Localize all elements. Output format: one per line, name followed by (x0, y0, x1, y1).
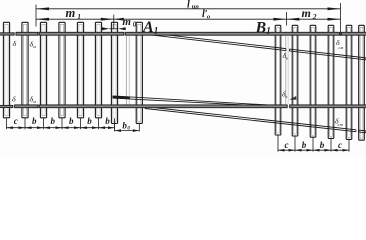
svg-text:c: c (338, 140, 342, 150)
svg-text:b: b (51, 116, 56, 126)
svg-text:см: см (338, 45, 343, 50)
svg-text:ст: ст (338, 122, 344, 127)
svg-text:A: A (142, 19, 154, 36)
svg-text:2: 2 (312, 12, 317, 21)
svg-text:δ: δ (13, 39, 17, 48)
svg-text:b: b (32, 116, 37, 126)
svg-text:1: 1 (266, 26, 271, 36)
svg-text:b: b (320, 140, 325, 150)
svg-text:0: 0 (133, 20, 137, 28)
svg-text:b: b (87, 116, 92, 126)
svg-text:b: b (302, 140, 307, 150)
svg-text:m: m (66, 6, 76, 20)
svg-text:м: м (32, 99, 36, 104)
svg-text:1: 1 (154, 25, 159, 35)
svg-text:l: l (187, 0, 190, 11)
svg-text:B: B (255, 19, 267, 36)
svg-text:c: c (14, 116, 18, 126)
svg-text:b: b (105, 116, 110, 126)
svg-text:1: 1 (77, 12, 81, 21)
svg-text:м: м (32, 44, 36, 49)
svg-text:пп: пп (192, 3, 200, 10)
svg-text:δ: δ (12, 95, 16, 104)
svg-text:m: m (122, 16, 131, 28)
svg-text:m: m (302, 6, 311, 20)
svg-text:b: b (69, 116, 74, 126)
svg-text:c: c (285, 140, 289, 150)
